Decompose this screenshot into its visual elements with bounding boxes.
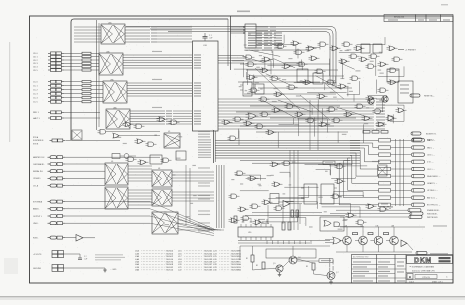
wires RN2 to mux U3 <box>91 82 103 102</box>
wires mux U1 outputs <box>125 26 192 42</box>
svg-text:GRANT L ←: GRANT L ← <box>427 182 438 185</box>
revision table <box>384 15 453 22</box>
drawing number box <box>406 274 453 284</box>
svg-text:FRAME BUS L: FRAME BUS L <box>427 209 440 212</box>
resistor network RN2 <box>82 81 91 103</box>
inter-stage resistors <box>353 233 389 235</box>
connector P2 FRAME BUS <box>330 209 440 219</box>
wire bus nested corners <box>126 27 336 89</box>
IC legend table <box>135 250 241 272</box>
power note text <box>95 254 125 260</box>
STB gating OR gate <box>113 133 160 138</box>
transistor Q6 <box>289 256 301 264</box>
buffer U11 <box>238 24 276 48</box>
svg-text:BAT 5.0 L ←: BAT 5.0 L ← <box>427 196 438 199</box>
svg-text:CHROMA IN L: CHROMA IN L <box>33 163 45 166</box>
svg-text:HALT 1: HALT 1 <box>33 117 40 120</box>
svg-text:RING BUS L: RING BUS L <box>427 213 438 215</box>
capacitor row above U30 <box>242 219 269 222</box>
board outline box <box>71 19 228 140</box>
svg-text:74LS367A: 74LS367A <box>231 252 242 255</box>
connector P2 BUS RST <box>411 132 437 136</box>
connector J2 MASTER CLK <box>33 156 65 159</box>
svg-text:SUSPEND B: SUSPEND B <box>33 140 44 142</box>
resistor R6 vertical <box>288 222 291 230</box>
oscillator bottom rail wire <box>336 245 412 252</box>
wire bus CPU to control logic <box>218 56 244 64</box>
filter capacitor C2 <box>78 254 87 260</box>
multiplexer U3 <box>103 78 127 103</box>
svg-text:← GND: ← GND <box>110 269 117 271</box>
multiplexer U4 <box>106 106 130 129</box>
bus row labels lower <box>198 167 210 168</box>
registration mark top center <box>237 11 250 13</box>
net label stack U11 outputs <box>248 32 282 48</box>
connector P2 pin NMI L <box>412 146 435 150</box>
wire data bus staircase to net labels <box>339 140 378 205</box>
wire data bus vertical feed bar <box>214 130 216 163</box>
lower wire mesh <box>235 160 367 226</box>
multiplexer U2 <box>99 50 123 75</box>
wires transistor cluster <box>240 246 330 276</box>
svg-text:74LS241: 74LS241 <box>204 251 214 253</box>
lower connector labels STB group <box>33 136 44 145</box>
svg-text:74LS74: 74LS74 <box>166 262 174 264</box>
notes text left of title block <box>329 258 334 278</box>
vertical drops to latch <box>268 204 300 224</box>
bias resistor R3 <box>306 263 315 270</box>
wire data bus horizontal <box>198 139 360 163</box>
wire fan bottom left <box>150 202 224 236</box>
connector P2 pin REAL MEM L <box>412 174 441 178</box>
connector P2 pin BAT 5.0 L <box>412 196 438 200</box>
decoder U31 <box>240 82 255 96</box>
resistor row control section <box>363 131 388 134</box>
ground symbol Q7 <box>329 280 333 284</box>
RESET net label <box>297 259 333 263</box>
transistor Q7 <box>327 272 339 280</box>
svg-text:U30: U30 <box>248 232 251 234</box>
svg-text:CPS-15: CPS-15 <box>422 277 430 279</box>
svg-text:DKM: DKM <box>414 257 432 264</box>
title text <box>406 265 453 272</box>
svg-text:74LS14: 74LS14 <box>166 270 174 272</box>
wires mux U4 to CPU lower pins <box>173 111 192 124</box>
connector J1 pin CD 1 <box>33 55 64 58</box>
svg-text:74LS138: 74LS138 <box>204 262 214 264</box>
svg-text:MASTER CLK: MASTER CLK <box>33 156 45 159</box>
svg-text:Q 5: Q 5 <box>273 263 276 265</box>
scan page bottom edge shadow <box>0 296 465 297</box>
svg-text:RESET A ←: RESET A ← <box>424 95 435 98</box>
isolation transformer T1 <box>372 161 387 176</box>
multiplexer U7 <box>105 187 128 209</box>
wires J1 group B to RN2 <box>64 82 82 102</box>
connector J1 pin CC 4 <box>33 96 64 99</box>
svg-text:+5 VOLTS: +5 VOLTS <box>33 254 42 256</box>
svg-text:R1: R1 <box>246 258 248 260</box>
connector J1 pin RFD 1 <box>33 111 64 114</box>
svg-text:EXT PROG L ←: EXT PROG L ← <box>427 205 441 207</box>
svg-text:4024-10, CHROMA CPU: 4024-10, CHROMA CPU <box>412 269 435 272</box>
wires J1 RFD/HALT <box>64 112 100 118</box>
connector J1 pin CC 1 <box>33 84 64 87</box>
long control wires <box>236 50 356 132</box>
svg-text:Q 7: Q 7 <box>336 272 339 274</box>
buffer A3 <box>388 115 394 121</box>
connector J2 pin BANK L <box>33 207 65 210</box>
svg-text:SERIAL IN L: SERIAL IN L <box>33 170 43 173</box>
reference designator scatter <box>116 44 383 229</box>
component row ticks <box>267 241 311 245</box>
connector J2 +5 VOLTS <box>33 251 80 258</box>
svg-text:UP REG L ←: UP REG L ← <box>427 190 438 192</box>
scan noise speckle <box>33 18 451 281</box>
mid logic gates <box>123 117 277 165</box>
connector J1 pin CD 4 <box>33 65 64 68</box>
connector P2 pin WAIT L <box>412 139 436 143</box>
driver transistor Q2 <box>355 225 367 245</box>
flip-flop U17 <box>301 184 317 204</box>
svg-text:REVISIONS: REVISIONS <box>394 17 405 19</box>
svg-text:74LS240A: 74LS240A <box>231 263 242 266</box>
ground symbol Q5 <box>278 273 282 277</box>
svg-text:74LS10: 74LS10 <box>166 259 174 261</box>
STB gating AND gate <box>98 130 161 135</box>
DKM logo <box>407 256 453 265</box>
wires J2 rows to logic <box>65 140 160 223</box>
svg-text:SYSTEM A: SYSTEM A <box>33 200 43 203</box>
svg-text:.1uF: .1uF <box>209 37 212 39</box>
register U33 <box>270 194 279 204</box>
svg-text:74LS32: 74LS32 <box>166 267 174 269</box>
CPU U10 <box>193 41 221 131</box>
bias resistor R2 <box>256 262 265 269</box>
svg-text:.1uF: .1uF <box>84 258 87 260</box>
svg-text:74LS139: 74LS139 <box>204 259 214 261</box>
svg-text:74LS393C: 74LS393C <box>231 262 242 264</box>
svg-text:OTHER L: OTHER L <box>33 178 41 180</box>
svg-text:U8: U8 <box>158 168 160 170</box>
connector J2 pin OUTPUT L <box>33 215 65 218</box>
svg-text:L6A: L6A <box>135 263 139 266</box>
WAIT label box <box>292 161 335 165</box>
wire vertical bus x230 <box>228 16 231 70</box>
svg-text:74LS368A: 74LS368A <box>231 269 242 272</box>
crystal Y1 <box>112 154 136 159</box>
connector J1 pin CD 0 <box>33 52 64 55</box>
ground symbol main <box>103 268 117 272</box>
decoupling capacitor C1 <box>203 33 213 41</box>
connector P2 pin D 5 L <box>412 160 434 164</box>
connector P2 pin CB 5 L <box>412 153 436 157</box>
wires mux U3 outputs to CPU U10 <box>127 83 192 96</box>
connector J2 pin LINK L <box>33 222 65 225</box>
decoder U32 <box>255 84 264 94</box>
bundle labels above wires <box>152 51 162 108</box>
flip-flop pair U12 <box>297 69 323 84</box>
svg-text:74LS259E: 74LS259E <box>231 251 242 253</box>
wire bus below U30 <box>238 241 330 244</box>
timing labels <box>258 219 269 224</box>
svg-text:WAIT 1: WAIT 1 <box>427 139 434 142</box>
multiplexer U6 <box>105 161 128 185</box>
svg-text:CB 5 L ←: CB 5 L ← <box>427 154 435 156</box>
connector P2 pin EXT PROG L <box>412 203 441 207</box>
svg-text:CB 1 L ←: CB 1 L ← <box>427 169 435 171</box>
multiplexer U1 <box>74 21 125 44</box>
svg-text:RFD 1: RFD 1 <box>33 112 40 114</box>
connector J2 pin CTL A <box>33 184 65 187</box>
vertical wires center-right <box>290 100 318 230</box>
wires mux U4 outputs <box>130 110 172 124</box>
register U14 <box>387 69 399 82</box>
oscillator input OR gate <box>325 237 341 244</box>
diagonal routing wires <box>255 68 330 120</box>
driver transistor Q3 <box>371 225 383 245</box>
multiplexer U5 <box>164 131 180 148</box>
svg-text:+5 PRESET: +5 PRESET <box>405 50 417 52</box>
wires RN1 to mux U2 <box>91 53 99 70</box>
svg-text:74LS08: 74LS08 <box>166 264 174 266</box>
driver transistor Q4 <box>386 225 398 245</box>
register U15 <box>398 81 413 103</box>
connector J2 RUN <box>33 236 65 239</box>
wires into buffer U11 <box>231 27 239 33</box>
svg-text:74LS161: 74LS161 <box>204 267 214 269</box>
svg-text:74LS244: 74LS244 <box>204 253 214 255</box>
latch U16 <box>150 151 186 164</box>
oscillator top rail wire <box>340 225 447 236</box>
connector P3 RESULT <box>416 251 448 254</box>
driver transistor Q1 <box>339 225 351 245</box>
control logic gate cluster <box>244 41 407 126</box>
connector P2 pin UP REG L <box>412 189 439 193</box>
vertical bus right section <box>396 139 404 206</box>
latch U30 <box>238 224 273 240</box>
net label boxes row <box>379 139 391 207</box>
connector J2 GROUND <box>33 265 105 272</box>
vertical wire bus left of muxes <box>97 20 100 130</box>
connector P2 RESET A <box>410 94 435 98</box>
monitor op-amp A4 <box>278 201 302 208</box>
flip-flop U18 <box>321 184 337 204</box>
svg-text:REAL MEM L ←: REAL MEM L ← <box>427 175 441 178</box>
multiplexer U8 <box>152 168 172 187</box>
connector P2 pin CB 1 L <box>412 167 436 171</box>
connector J2 pin OTHER L <box>33 177 65 180</box>
svg-text:74LS04: 74LS04 <box>166 251 174 253</box>
bus source labels <box>198 131 210 138</box>
svg-text:GROUND: GROUND <box>33 268 42 270</box>
wires U8 U9 to bus <box>172 172 214 201</box>
svg-text:R3: R3 <box>306 266 308 268</box>
wires net labels to connectors <box>391 140 412 205</box>
connector J1 pin CD 3 <box>33 62 64 65</box>
svg-text:L7A: L7A <box>135 266 139 269</box>
svg-text:™ SCHEMATIC DIAGRAM: ™ SCHEMATIC DIAGRAM <box>409 265 434 268</box>
multiplexer U9 <box>152 189 172 206</box>
divider resistors R7 R8 <box>291 210 299 217</box>
svg-text:L1A: L1A <box>135 250 139 253</box>
svg-text:74LS00: 74LS00 <box>166 253 174 255</box>
svg-text:CTL A: CTL A <box>33 184 39 187</box>
wire address bus to right labels <box>218 98 385 129</box>
connector J1 pin CC 3 <box>33 92 64 95</box>
control logic wire mesh <box>232 35 404 148</box>
svg-text:BUS/RST 1: BUS/RST 1 <box>426 134 437 136</box>
connector J2 pin CHROMA IN L <box>33 163 65 166</box>
connector J1 pin CD 2 <box>33 59 64 62</box>
wires mux U2 outputs to CPU U10 <box>123 55 192 68</box>
+5 PRESET net label <box>398 50 417 52</box>
gate box U34 <box>320 217 344 231</box>
connector P2 WAIT <box>412 138 434 142</box>
svg-text:74LS251B: 74LS251B <box>231 267 242 269</box>
svg-text:L5A: L5A <box>135 261 139 264</box>
connector J1 pin CC 5 <box>33 100 64 103</box>
wires U6 U7 outputs <box>128 166 152 205</box>
multiplexer U19 <box>152 212 178 234</box>
connector J2 STB <box>50 139 66 142</box>
bias network box <box>266 249 316 258</box>
svg-text:WRITE BUS: WRITE BUS <box>427 217 438 219</box>
svg-text:SHEET 1 OF 2: SHEET 1 OF 2 <box>432 282 443 284</box>
svg-text:74LS245B: 74LS245B <box>231 256 242 258</box>
connector J2 pin SERIAL IN L <box>33 170 65 173</box>
resistor R5 vertical <box>282 222 285 230</box>
wire long horizontal y215 <box>245 213 345 216</box>
svg-text:OUTPUT L: OUTPUT L <box>33 216 42 218</box>
scan artifact left streak <box>9 42 10 142</box>
op-amp buffer A1 <box>65 235 95 242</box>
bias resistor R1 <box>246 255 254 262</box>
buffer A2 <box>401 240 413 250</box>
svg-text:L4A: L4A <box>135 258 139 261</box>
drawing border frame <box>30 16 454 283</box>
connector J1 pin HALT 1 <box>33 117 64 120</box>
svg-text:RUN L: RUN L <box>33 237 38 239</box>
connector J1 pin CC 0 <box>33 80 64 83</box>
svg-text:R2: R2 <box>256 265 258 267</box>
svg-text:L8A: L8A <box>135 269 139 272</box>
connector J1 pin CC 2 <box>33 88 64 91</box>
transistor Q8 <box>368 98 374 104</box>
svg-text:BANK L: BANK L <box>33 208 39 211</box>
svg-text:U5: U5 <box>168 131 170 133</box>
svg-text:NMI L ←: NMI L ← <box>427 147 434 149</box>
vertical wire bus center <box>186 165 224 232</box>
svg-text:74LS02: 74LS02 <box>166 256 174 258</box>
connector J2 pin SYSTEM A <box>33 200 65 203</box>
svg-text:STB A: STB A <box>33 136 39 139</box>
svg-text:U6: U6 <box>111 161 113 163</box>
svg-text:74LS112A: 74LS112A <box>231 258 242 261</box>
opto coupler U40 <box>72 130 82 140</box>
svg-text:STB B: STB B <box>33 143 39 145</box>
title block <box>352 255 454 284</box>
svg-text:L2A: L2A <box>135 252 139 255</box>
registration mark top right <box>441 4 448 5</box>
lower logic gates <box>229 161 389 225</box>
transistor Q5 <box>273 263 283 272</box>
svg-text:LINK L: LINK L <box>33 223 39 225</box>
connector J1 pin CD 5 <box>33 69 64 72</box>
flip-flop pair U13 <box>361 44 382 53</box>
wires J1 group A to RN1 <box>64 53 82 70</box>
svg-text:D 5 L ←: D 5 L ← <box>427 162 434 164</box>
svg-text:74LS165: 74LS165 <box>204 270 214 272</box>
svg-text:C 2: C 2 <box>84 256 87 258</box>
termination resistor R10 <box>381 203 393 208</box>
resistor network RN1 <box>82 52 91 71</box>
svg-text:L3A: L3A <box>135 255 139 258</box>
connector P2 pin GRANT L <box>412 182 438 186</box>
resistor R4 vertical <box>234 216 237 223</box>
transistor Q9 <box>382 96 388 102</box>
